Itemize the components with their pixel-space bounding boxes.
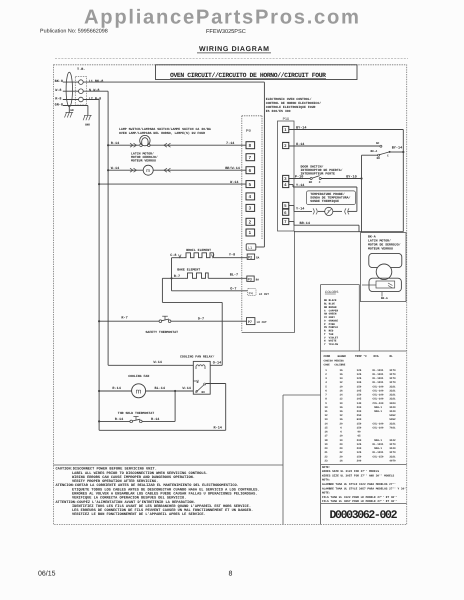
svg-text:105: 105	[357, 389, 362, 392]
svg-text:L1: L1	[248, 246, 252, 250]
svg-text:8: 8	[229, 571, 233, 578]
wire R-14	[142, 420, 175, 422]
right panel left edge	[320, 285, 322, 525]
svg-text:R-7: R-7	[174, 274, 180, 279]
EOC lower outline	[294, 231, 296, 333]
svg-text:ALAMBRE TAMA UL STYLE 3122 PAR: ALAMBRE TAMA UL STYLE 3122 PARA MODELOS …	[322, 482, 396, 486]
svg-text:3: 3	[249, 206, 252, 211]
svg-text:CXL-100: CXL-100	[373, 398, 384, 401]
svg-text:SONDE THERMIQUE: SONDE THERMIQUE	[310, 199, 339, 203]
svg-text:m: m	[146, 168, 150, 174]
svg-text:10: 10	[339, 385, 343, 388]
svg-text:4: 4	[284, 182, 287, 187]
svg-text:6: 6	[340, 427, 342, 430]
header rule	[55, 57, 408, 59]
svg-text:200: 200	[357, 459, 362, 462]
svg-text:C: C	[195, 391, 197, 394]
svg-text:W-8: W-8	[55, 88, 61, 93]
svg-text:BK-A: BK-A	[371, 150, 378, 153]
svg-text:7: 7	[325, 394, 327, 397]
svg-text:WIRING DIAGRAM: WIRING DIAGRAM	[199, 46, 269, 53]
svg-text:MOTEUR VERROU: MOTEUR VERROU	[368, 247, 393, 251]
wire W-14 row3	[99, 183, 246, 185]
svg-text:BL-14: BL-14	[155, 386, 166, 391]
svg-text:600: 600	[357, 418, 362, 421]
svg-text:7-14: 7-14	[226, 141, 234, 146]
svg-text:6: 6	[284, 210, 287, 215]
svg-text:3324: 3324	[389, 402, 396, 405]
node bus A thermal junction	[98, 420, 100, 422]
latch cam lower	[369, 278, 401, 291]
svg-text:17: 17	[324, 435, 328, 438]
svg-text:125: 125	[357, 373, 362, 376]
svg-text:125: 125	[357, 451, 362, 454]
safety thermostat S3	[159, 320, 162, 323]
connector P9 pin 3	[246, 204, 255, 211]
svg-text:8: 8	[325, 398, 327, 401]
node bus A fan junction	[98, 390, 100, 392]
svg-text:ALAMBRE TAMA UL STYLE 3057 PAR: ALAMBRE TAMA UL STYLE 3057 PARA MODELOS …	[322, 486, 408, 490]
node bus A safety junction	[98, 320, 100, 322]
svg-text:22: 22	[339, 451, 343, 454]
svg-text:10: 10	[339, 435, 343, 438]
harness loop	[66, 72, 72, 107]
svg-text:EL.1001: EL.1001	[373, 373, 384, 376]
svg-text:AppliancePartsPros.com: AppliancePartsPros.com	[84, 6, 359, 28]
svg-text:20: 20	[339, 447, 343, 450]
svg-text:SEW-1: SEW-1	[374, 439, 382, 442]
svg-text:90: 90	[357, 431, 361, 434]
connector P10 pin 3	[283, 175, 289, 181]
svg-text:CXL-150: CXL-150	[373, 455, 384, 458]
svg-text:P10: P10	[283, 117, 289, 121]
latch cam upper	[369, 253, 402, 267]
temperature probe RT1	[325, 207, 333, 215]
svg-text:R-14: R-14	[112, 386, 120, 391]
svg-text:GND: GND	[85, 124, 90, 127]
svg-text:CXL-100: CXL-100	[373, 427, 384, 430]
svg-text:16: 16	[324, 431, 328, 434]
svg-text:4: 4	[249, 194, 252, 199]
terminal L1	[79, 80, 84, 85]
bus A (L2)	[98, 100, 100, 431]
latch switch inner	[376, 281, 395, 288]
connector P9 pin 6	[246, 167, 255, 174]
svg-text:R-14: R-14	[111, 141, 119, 146]
svg-text:P4: P4	[249, 291, 253, 295]
svg-text:BR/W-14: BR/W-14	[225, 166, 240, 171]
svg-text:5052: 5052	[389, 414, 396, 417]
svg-text:7: 7	[284, 219, 287, 224]
svg-text:16: 16	[339, 373, 343, 376]
broil element E1	[184, 253, 214, 258]
svg-text:EL-1201: EL-1201	[373, 451, 384, 454]
svg-text:1: 1	[284, 127, 287, 132]
svg-text:150: 150	[357, 455, 362, 458]
svg-text:L1 BK-8: L1 BK-8	[89, 79, 104, 84]
svg-text:3321: 3321	[389, 389, 396, 392]
svg-text:150: 150	[357, 422, 362, 425]
svg-text:3120: 3120	[389, 406, 396, 409]
node fan junction	[174, 390, 176, 392]
wire R-8 stub	[63, 99, 79, 101]
wire BY-14 to riser	[390, 151, 403, 153]
svg-text:23: 23	[324, 459, 328, 462]
svg-text:TEMP °C: TEMP °C	[355, 355, 367, 358]
svg-text:BR-14: BR-14	[300, 221, 311, 226]
svg-text:150: 150	[357, 394, 362, 397]
svg-text:BROIL ELEMENT: BROIL ELEMENT	[186, 248, 211, 252]
wire L1 riser to EOC	[263, 82, 265, 247]
diagram outer border	[54, 65, 407, 525]
svg-text:NO: NO	[202, 391, 206, 394]
svg-text:16: 16	[339, 459, 343, 462]
connector P9 pin 2	[246, 218, 255, 225]
svg-text:EL.1001: EL.1001	[373, 377, 384, 380]
svg-text:20: 20	[339, 422, 343, 425]
door switch S1	[310, 178, 312, 180]
svg-text:BK-8: BK-8	[55, 79, 63, 84]
svg-text:NOTE:: NOTE:	[322, 492, 331, 495]
svg-text:140: 140	[357, 402, 362, 405]
svg-text:P9: P9	[246, 128, 252, 133]
connector L1	[246, 244, 256, 250]
wire R-14 fan	[99, 390, 132, 392]
svg-text:16: 16	[339, 410, 343, 413]
wire NO branch	[362, 154, 378, 156]
svg-text:D0003062-002: D0003062-002	[330, 509, 398, 522]
svg-text:OVEN LAMP/LAMPARA DEL HORNO, L: OVEN LAMP/LAMPARA DEL HORNO, LAMPE(S) DU…	[119, 131, 205, 135]
svg-text:C: C	[319, 181, 321, 184]
svg-text:3321: 3321	[389, 398, 396, 401]
svg-text:LO CUT: LO CUT	[257, 321, 267, 324]
svg-text:NC: NC	[376, 142, 380, 145]
svg-text:16: 16	[339, 389, 343, 392]
svg-text:5: 5	[284, 203, 287, 208]
connector P9	[242, 116, 262, 333]
connector arrows	[164, 143, 171, 147]
svg-text:Y YELLOW: Y YELLOW	[324, 343, 338, 346]
connector P3	[247, 276, 254, 281]
svg-text:W-14: W-14	[183, 386, 191, 391]
svg-text:12: 12	[324, 414, 328, 417]
svg-text:NOTA:: NOTA:	[322, 479, 331, 482]
svg-text:COLORS: COLORS	[325, 290, 338, 294]
svg-text:NO: NO	[309, 181, 313, 184]
wire W-14 latch row	[108, 169, 143, 171]
svg-text:P7: P7	[248, 320, 252, 324]
colors legend box	[321, 284, 360, 286]
wire R-14 thermal	[99, 420, 130, 422]
svg-text:11: 11	[324, 410, 328, 413]
cooling fan M3	[132, 384, 146, 398]
svg-text:9: 9	[325, 402, 327, 405]
wire 7-14	[150, 144, 246, 146]
svg-text:125: 125	[357, 377, 362, 380]
svg-text:8A: 8A	[256, 278, 260, 281]
svg-text:65: 65	[357, 435, 361, 438]
wire L1 BK-8 top run	[83, 81, 264, 83]
svg-text:22: 22	[324, 455, 328, 458]
svg-text:BY-10: BY-10	[346, 174, 357, 179]
svg-text:COOLING FAN: COOLING FAN	[128, 374, 149, 378]
svg-text:BY-14: BY-14	[392, 146, 403, 151]
wire BL-7	[208, 277, 247, 279]
svg-text:19: 19	[324, 443, 328, 446]
connector P10 pin 7	[283, 218, 289, 224]
svg-text:2: 2	[249, 220, 252, 225]
svg-text:4079: 4079	[389, 459, 396, 462]
svg-text:P-10: P-10	[295, 174, 303, 179]
connector P10	[278, 121, 295, 231]
svg-text:3: 3	[284, 176, 287, 181]
svg-text:BAKE ELEMENT: BAKE ELEMENT	[177, 267, 200, 271]
connector P10 pin 1	[283, 126, 289, 132]
wire to chassis ground	[87, 106, 89, 116]
wire BY-14	[289, 129, 404, 131]
wire GN-8 stub	[63, 105, 88, 107]
svg-text:R-14: R-14	[214, 425, 222, 430]
svg-text:10: 10	[339, 439, 343, 442]
svg-text:P2: P2	[248, 255, 252, 259]
terminal N	[79, 89, 84, 94]
svg-text:20: 20	[324, 447, 328, 450]
svg-text:SEW-1: SEW-1	[374, 447, 382, 450]
svg-text:3122: 3122	[389, 439, 396, 442]
latch motor M1	[143, 165, 153, 175]
svg-text:LO CUT: LO CUT	[259, 293, 269, 296]
wire R-14 lamp row	[108, 144, 139, 146]
svg-text:150: 150	[357, 427, 362, 430]
svg-text:O-14: O-14	[213, 360, 221, 365]
svg-text:EL.1201: EL.1201	[373, 443, 384, 446]
svg-text:ES 300/ES 300: ES 300/ES 300	[266, 109, 291, 113]
wire BR/W-14	[153, 169, 246, 171]
svg-text:FILS TAMA UL 3057 POUR LE MODE: FILS TAMA UL 3057 POUR LE MODELE 27'' ET…	[322, 499, 398, 503]
svg-text:C: C	[387, 154, 389, 157]
node bus B latch junction	[107, 169, 109, 171]
oven lamp B1	[140, 144, 143, 147]
wire BK-8 stub	[63, 81, 79, 83]
svg-text:3321: 3321	[389, 422, 396, 425]
svg-text:3120: 3120	[389, 447, 396, 450]
temperature probe labels box	[306, 191, 355, 205]
wire L2 to bus A	[83, 99, 99, 101]
wire BR-14	[289, 221, 294, 223]
svg-text:COOLING FAN RELAY/: COOLING FAN RELAY/	[180, 355, 215, 359]
svg-text:BK-A: BK-A	[381, 297, 388, 300]
svg-text:1: 1	[325, 369, 327, 372]
wire bottom return	[99, 429, 226, 431]
notes box	[321, 463, 407, 465]
svg-text:250: 250	[357, 414, 362, 417]
thermal shield thermostat S4	[130, 420, 133, 423]
svg-text:18: 18	[324, 439, 328, 442]
svg-text:3173: 3173	[389, 443, 396, 446]
svg-text:Y-8: Y-8	[229, 253, 235, 258]
svg-text:125: 125	[357, 369, 362, 372]
ground (harness)	[68, 107, 70, 113]
svg-text:5: 5	[249, 182, 252, 187]
partition step	[282, 395, 284, 525]
svg-text:2: 2	[325, 373, 327, 376]
svg-text:W-14: W-14	[154, 360, 162, 365]
svg-text:3321: 3321	[389, 394, 396, 397]
svg-text:10: 10	[324, 406, 328, 409]
svg-text:150: 150	[357, 385, 362, 388]
svg-text:CXL-100: CXL-100	[373, 389, 384, 392]
svg-text:WIRES SIZE UL 3057 FOR 27'' AN: WIRES SIZE UL 3057 FOR 27'' AND 30'' MOD…	[322, 473, 394, 477]
svg-text:BY-14: BY-14	[296, 125, 307, 130]
svg-text:3173: 3173	[389, 377, 396, 380]
svg-text:105: 105	[357, 398, 362, 401]
ground GND	[83, 115, 92, 120]
connector arrows	[130, 143, 137, 147]
wire Y-14 pin5	[289, 205, 294, 207]
node bus A row3 junction	[98, 183, 100, 185]
svg-text:R-8: R-8	[55, 96, 61, 101]
svg-text:5052: 5052	[389, 418, 396, 421]
bake element E2	[185, 273, 208, 278]
svg-text:200: 200	[357, 406, 362, 409]
svg-text:R-14: R-14	[115, 417, 123, 422]
svg-text:VERIFIEZ LE BON FONCTIONNEMENT: VERIFIEZ LE BON FONCTIONNEMENT DE L'APPA…	[72, 512, 206, 517]
svg-text:6: 6	[249, 168, 252, 173]
svg-text:NC: NC	[197, 379, 200, 383]
svg-text:9-7: 9-7	[198, 317, 204, 322]
svg-text:3: 3	[325, 377, 327, 380]
svg-text:16: 16	[339, 418, 343, 421]
svg-text:GN-8: GN-8	[55, 102, 63, 107]
svg-text:12: 12	[339, 414, 343, 417]
node bus B lamp junction	[107, 144, 109, 146]
svg-text:20: 20	[339, 443, 343, 446]
svg-text:3173: 3173	[389, 369, 396, 372]
svg-text:3173: 3173	[389, 381, 396, 384]
wire W-8 stub	[63, 90, 79, 92]
svg-text:GN: GN	[70, 109, 74, 112]
svg-text:12: 12	[339, 398, 343, 401]
connector P9 pin 8	[246, 142, 255, 149]
connector P2	[247, 254, 254, 259]
svg-text:6: 6	[340, 431, 342, 434]
svg-text:Y-14: Y-14	[296, 207, 304, 212]
svg-text:FFEW3025PSC: FFEW3025PSC	[206, 29, 246, 35]
svg-text:WIRES SIZE UL 3122 FOR 27'' MO: WIRES SIZE UL 3122 FOR 27'' MODELS	[322, 469, 379, 473]
wire gauge table	[321, 350, 407, 352]
svg-text:200: 200	[357, 439, 362, 442]
svg-text:W-14: W-14	[230, 180, 238, 185]
svg-text:3120: 3120	[389, 410, 396, 413]
svg-text:R-7: R-7	[121, 316, 127, 321]
connector P9 pin 1	[246, 229, 255, 236]
svg-text:N W-8: N W-8	[89, 88, 100, 93]
svg-text:CODIGO MEDIDA: CODIGO MEDIDA	[324, 359, 345, 362]
svg-text:P3: P3	[248, 277, 252, 281]
svg-text:EL: EL	[390, 355, 394, 358]
svg-text:16: 16	[339, 406, 343, 409]
svg-text:200: 200	[357, 410, 362, 413]
probe disconnects	[313, 208, 317, 214]
node BK-A	[381, 292, 383, 297]
svg-text:06/15: 06/15	[38, 570, 56, 578]
svg-text:THR SHLD THERMOSTAT: THR SHLD THERMOSTAT	[118, 411, 154, 415]
svg-text:CXL-100: CXL-100	[373, 402, 384, 405]
svg-text:5: 5	[325, 385, 327, 388]
svg-text:13: 13	[324, 418, 328, 421]
svg-text:20: 20	[339, 455, 343, 458]
svg-text:SEW-1: SEW-1	[374, 406, 382, 409]
svg-text:12: 12	[339, 381, 343, 384]
wire N to bus B	[83, 90, 108, 92]
connector P10 pin 6	[283, 209, 289, 215]
svg-text:CXL-100: CXL-100	[373, 422, 384, 425]
probe disconnects	[333, 210, 342, 212]
wire BY-10	[321, 178, 361, 180]
svg-text:16: 16	[339, 369, 343, 372]
caution box top	[54, 464, 284, 466]
wire R-7 to P7	[171, 320, 247, 322]
svg-text:6: 6	[325, 389, 327, 392]
bus B (neutral)	[107, 91, 109, 365]
connector P9 pin 5	[246, 181, 255, 188]
svg-text:SEW-1: SEW-1	[374, 410, 382, 413]
svg-text:Y-14: Y-14	[296, 183, 304, 188]
svg-text:14: 14	[324, 422, 328, 425]
svg-text:8: 8	[249, 143, 252, 148]
svg-text:CXL-100: CXL-100	[373, 385, 384, 388]
svg-text:MOTEUR VERROU: MOTEUR VERROU	[131, 159, 156, 163]
svg-text:3321: 3321	[389, 455, 396, 458]
svg-text:DIA: DIA	[374, 355, 379, 358]
svg-text:EL.1201: EL.1201	[373, 369, 384, 372]
wire P-10	[289, 178, 310, 180]
wire O-14	[289, 145, 380, 147]
svg-text:7: 7	[249, 155, 252, 160]
svg-text:200: 200	[357, 447, 362, 450]
wire W-14 coil feed	[108, 364, 193, 366]
svg-text:CODE: CODE	[324, 355, 331, 358]
svg-text:R-14: R-14	[151, 417, 159, 422]
wire broil to bake drop	[171, 258, 173, 291]
svg-text:T.B.: T.B.	[77, 67, 85, 72]
svg-text:CODE CALIBRE: CODE CALIBRE	[324, 363, 346, 366]
connector P10 pin 2	[283, 142, 289, 148]
svg-text:14: 14	[339, 394, 343, 397]
svg-text:SAFETY THERMOSTAT: SAFETY THERMOSTAT	[146, 330, 179, 334]
svg-text:NO: NO	[377, 157, 381, 160]
svg-text:O-7: O-7	[230, 287, 236, 292]
svg-text:4: 4	[325, 381, 327, 384]
svg-text:3173: 3173	[389, 373, 396, 376]
wire Y-8	[213, 257, 247, 259]
svg-text:W-14: W-14	[111, 166, 119, 171]
svg-text:125: 125	[357, 443, 362, 446]
svg-text:3173: 3173	[389, 451, 396, 454]
svg-text:105: 105	[357, 381, 362, 384]
latch motor M2	[376, 264, 392, 280]
svg-text:OVEN CIRCUIT//CIRCUITO DE HORN: OVEN CIRCUIT//CIRCUITO DE HORNO//CIRCUIT…	[170, 72, 326, 79]
svg-text:INTERRUPTEUR PORTE: INTERRUPTEUR PORTE	[301, 171, 336, 175]
svg-text:7021: 7021	[389, 427, 396, 430]
wire O-14 coil return	[210, 364, 222, 366]
connector P10 pin 4	[283, 181, 289, 187]
wire O-7	[172, 290, 248, 292]
svg-text:NOTE:: NOTE:	[322, 466, 331, 469]
svg-text:3321: 3321	[389, 385, 396, 388]
wire R-7	[162, 277, 185, 279]
svg-text:FILS TAMA UL 3122 POUR LE MODE: FILS TAMA UL 3122 POUR LE MODELE 27'' ET…	[322, 495, 398, 499]
